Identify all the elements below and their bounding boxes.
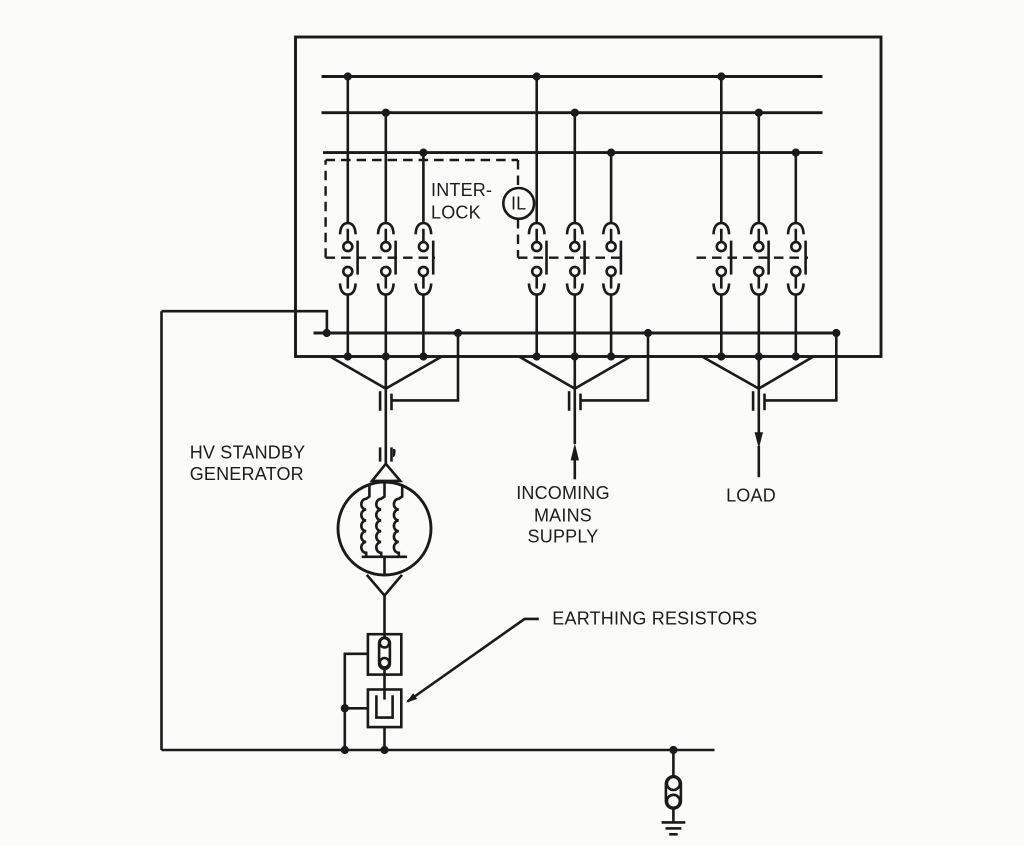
node: generator phase 2 on collector bbox=[382, 352, 390, 360]
node: left loop on bottom busbar bbox=[323, 329, 331, 337]
leader: earthing resistors label bbox=[408, 619, 539, 702]
bottom connection busbar bbox=[314, 332, 837, 335]
earthing link capsule bbox=[666, 776, 681, 808]
wire: incoming breaker 1 down bbox=[535, 294, 538, 356]
svg-text:INCOMING: INCOMING bbox=[516, 483, 610, 503]
wire: left earth riser bbox=[160, 311, 163, 750]
circuit breaker CB2 generator bus2 bbox=[378, 223, 396, 295]
node: generator phase 1 on collector bbox=[344, 352, 352, 360]
circuit breaker CB8 load bus2 bbox=[751, 223, 769, 295]
wire: bus1 to incoming breaker 1 bbox=[535, 77, 538, 224]
gang linkage incoming breakers bbox=[518, 257, 625, 259]
wire: load links to bottom busbar bbox=[765, 333, 837, 400]
earthing resistor R2 enclosure bbox=[368, 690, 401, 728]
isolating links generator circuit bbox=[380, 391, 391, 411]
isolating links incoming circuit bbox=[569, 391, 580, 411]
wire: bus2 to incoming breaker 2 bbox=[573, 113, 576, 224]
node: bus3 incoming tap bbox=[607, 149, 615, 157]
isolating links generator terminal bbox=[380, 447, 396, 461]
wire: generator fan centre bbox=[384, 357, 387, 389]
wire: bus3 to generator breaker 3 bbox=[422, 153, 425, 224]
arrow: load flow bbox=[755, 432, 763, 449]
circuit breaker CB6 incoming bus3 bbox=[603, 223, 621, 295]
generator winding bottom delta bbox=[367, 575, 402, 596]
wire: bus2 to generator breaker 2 bbox=[384, 113, 387, 224]
node: load tap on bottom busbar bbox=[832, 329, 840, 337]
node: bus3 generator tap bbox=[419, 149, 427, 157]
wire: star point down bbox=[383, 557, 386, 575]
interlock boundary left bbox=[324, 160, 326, 258]
generator winding phase A coil bbox=[361, 484, 369, 557]
node: incoming tap on bottom busbar bbox=[644, 329, 652, 337]
wire: bus3 to incoming breaker 3 bbox=[610, 153, 613, 224]
node: bypass junction bbox=[341, 704, 349, 712]
wire: incoming links to bottom busbar bbox=[581, 333, 649, 400]
wire: generator to earthing resistor R1 bbox=[383, 596, 386, 639]
circuit breaker CB5 incoming bus2 bbox=[567, 223, 585, 295]
busbar 3 bbox=[323, 151, 823, 154]
node: load phase 2 on collector bbox=[755, 352, 763, 360]
wire: R1 to R2 bbox=[383, 668, 386, 700]
node: earth link tap bbox=[669, 746, 677, 754]
node: generator phase 3 on collector bbox=[419, 352, 427, 360]
wire: generator breaker 1 down bbox=[346, 294, 349, 356]
node: bus2 incoming tap bbox=[571, 109, 579, 117]
wire: bus2 to load breaker 2 bbox=[757, 113, 760, 224]
generator winding phase C coil bbox=[394, 484, 402, 557]
earthing resistor R2 element bbox=[376, 695, 392, 717]
svg-text:INTER-: INTER- bbox=[431, 180, 492, 200]
generator winding phase B coil bbox=[376, 482, 384, 557]
earthing resistor R1 enclosure bbox=[368, 634, 401, 674]
circuit breaker CB7 load bus1 bbox=[714, 223, 732, 295]
svg-text:SUPPLY: SUPPLY bbox=[528, 526, 599, 546]
svg-text:MAINS: MAINS bbox=[534, 506, 592, 526]
wire: load feeder bbox=[757, 389, 760, 433]
wire: generator feeder bbox=[384, 389, 387, 464]
node: bus1 incoming tap bbox=[533, 72, 541, 80]
wire: link to ground bbox=[672, 809, 675, 823]
node: bus2 generator tap bbox=[382, 109, 390, 117]
load phase collector fan bbox=[702, 357, 814, 389]
leader arrowhead bbox=[406, 693, 417, 702]
interlock device IL bbox=[503, 188, 534, 219]
node: incoming phase 1 on collector bbox=[533, 352, 541, 360]
wire: load breaker 2 down bbox=[757, 294, 760, 356]
svg-text:LOAD: LOAD bbox=[726, 486, 776, 506]
wire: incoming fan centre bbox=[573, 357, 576, 389]
circuit breaker CB3 generator bus3 bbox=[416, 223, 434, 295]
wire: load breaker 1 down bbox=[720, 294, 723, 356]
wire: generator breaker 3 down bbox=[422, 294, 425, 356]
node: R2 on earth conductor bbox=[380, 746, 388, 754]
wire: load fan centre bbox=[757, 357, 760, 389]
incoming phase collector fan bbox=[519, 357, 631, 389]
circuit breaker CB1 generator bus1 bbox=[340, 223, 358, 295]
node: load phase 1 on collector bbox=[717, 352, 725, 360]
wire: earth link riser bbox=[672, 750, 675, 776]
wire: incoming arrow shaft bbox=[573, 460, 576, 479]
busbar 2 bbox=[322, 111, 823, 114]
wire: generator breaker 2 down bbox=[384, 294, 387, 356]
gang linkage generator breakers bbox=[326, 257, 435, 259]
wire: R2 to earth conductor bbox=[383, 727, 386, 750]
wire: bus1 to load breaker 1 bbox=[720, 77, 723, 224]
node: bus3 load tap bbox=[792, 149, 800, 157]
interlock boundary right lower bbox=[517, 219, 519, 258]
wire: load tail bbox=[757, 446, 760, 477]
node: incoming phase 3 on collector bbox=[607, 352, 615, 360]
generator star point bar bbox=[362, 555, 407, 558]
node: load phase 3 on collector bbox=[792, 352, 800, 360]
node: incoming phase 2 on collector bbox=[571, 352, 579, 360]
wire: incoming feeder bbox=[573, 389, 576, 444]
svg-text:IL: IL bbox=[511, 194, 526, 214]
svg-text:EARTHING RESISTORS: EARTHING RESISTORS bbox=[552, 608, 757, 628]
wire: bus1 to generator breaker 1 bbox=[346, 77, 349, 224]
node: bus2 load tap bbox=[755, 109, 763, 117]
generator G1 stator circle bbox=[338, 482, 431, 575]
wire: incoming breaker 2 down bbox=[573, 294, 576, 356]
node: generator tap on bottom busbar bbox=[454, 329, 462, 337]
svg-text:LOCK: LOCK bbox=[431, 202, 481, 222]
generator phase collector fan bbox=[330, 357, 442, 389]
circuit breaker CB4 incoming bus1 bbox=[529, 223, 547, 295]
busbar 1 bbox=[322, 75, 823, 78]
wire: incoming breaker 3 down bbox=[610, 294, 613, 356]
earth conductor bottom bbox=[162, 749, 715, 752]
wire: resistor bypass left bbox=[345, 654, 368, 750]
switchboard enclosure bbox=[296, 37, 882, 357]
interlock boundary top bbox=[326, 159, 518, 161]
wire: bus3 to load breaker 3 bbox=[794, 153, 797, 224]
wire: earth loop from busbar to left riser bbox=[162, 311, 327, 333]
generator winding top delta bbox=[372, 464, 400, 481]
node: bus1 generator tap bbox=[344, 72, 352, 80]
circuit breaker CB9 load bus3 bbox=[788, 223, 806, 295]
interlock boundary right upper bbox=[517, 160, 519, 188]
node: bus1 load tap bbox=[717, 72, 725, 80]
gang linkage load breakers bbox=[697, 257, 809, 259]
arrow: incoming supply flow bbox=[571, 443, 579, 460]
earthing resistor R1 link element bbox=[379, 638, 390, 669]
wire: bypass to R2 bbox=[345, 707, 368, 710]
ground symbol bbox=[662, 822, 686, 834]
wire: load breaker 3 down bbox=[794, 294, 797, 356]
svg-text:HV STANDBY: HV STANDBY bbox=[190, 443, 306, 463]
wire: generator links to bottom busbar bbox=[392, 333, 459, 400]
node: bypass on earth conductor bbox=[341, 746, 349, 754]
svg-text:GENERATOR: GENERATOR bbox=[190, 464, 304, 484]
isolating links load circuit bbox=[753, 391, 764, 411]
